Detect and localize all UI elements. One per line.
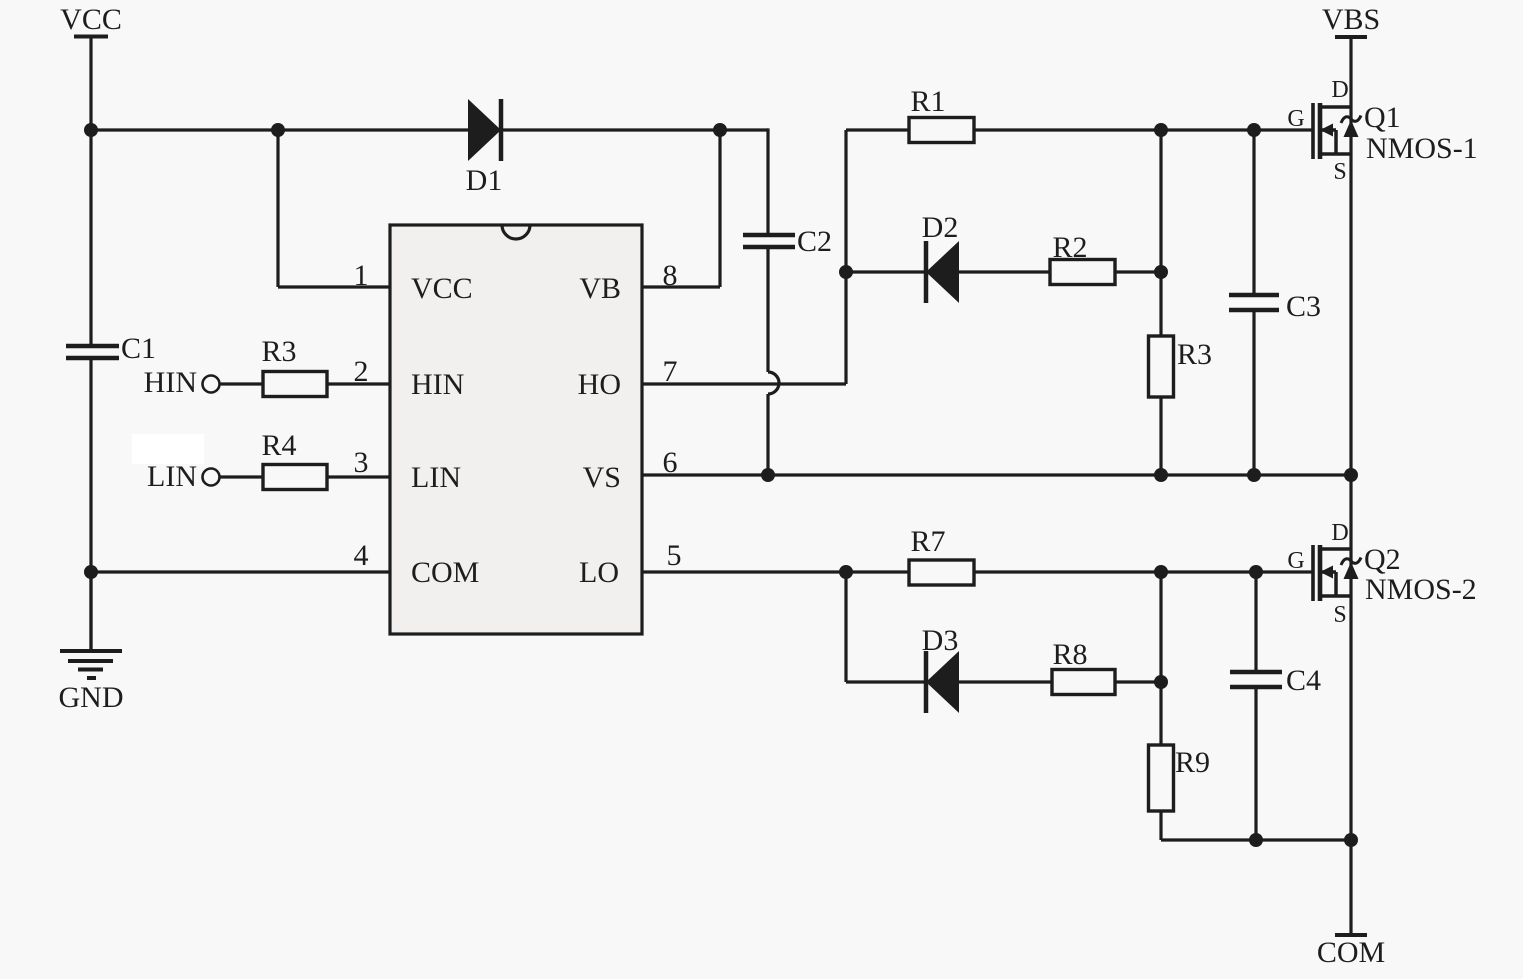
resistor R3 (gate) [1149, 336, 1213, 397]
resistor R2 [1050, 231, 1115, 285]
svg-text:R3: R3 [1177, 338, 1212, 371]
wire pin8 branch [642, 130, 720, 287]
wire HIN to R3 [220, 382, 263, 385]
svg-text:HIN: HIN [411, 368, 464, 401]
svg-text:R1: R1 [910, 85, 945, 118]
svg-text:1: 1 [354, 259, 369, 292]
svg-text:NMOS-2: NMOS-2 [1365, 573, 1477, 606]
node junction bottom rail / Q2 source [1344, 833, 1358, 847]
node junction VS/R3 [1154, 468, 1168, 482]
node junction R2/R3 [1154, 265, 1168, 279]
wire D2 to R2 [959, 270, 1050, 273]
wire D3 branch [846, 572, 926, 682]
node junction pin8 branch [713, 123, 727, 137]
wire Q2 drain-source vertical [1349, 475, 1352, 935]
wire R1 to gate rail [974, 128, 1312, 131]
svg-text:S: S [1333, 602, 1346, 628]
node LIN input [147, 460, 219, 493]
wire HO to R1 [846, 128, 909, 131]
svg-text:C2: C2 [797, 225, 832, 258]
svg-text:LIN: LIN [411, 461, 461, 494]
transistor Q2 name [1364, 543, 1477, 606]
svg-text:HO: HO [578, 368, 621, 401]
svg-text:4: 4 [354, 539, 369, 572]
svg-text:D: D [1331, 520, 1348, 546]
svg-text:C3: C3 [1286, 290, 1321, 323]
svg-text:VBS: VBS [1322, 3, 1380, 36]
node junction VCC/top-rail [84, 123, 98, 137]
svg-text:8: 8 [663, 259, 678, 292]
svg-text:G: G [1287, 548, 1304, 574]
svg-text:VB: VB [579, 272, 621, 305]
svg-text:5: 5 [667, 539, 682, 572]
node junction R8/R9 [1154, 675, 1168, 689]
node junction bottom rail / C4 [1249, 833, 1263, 847]
wire VS row pin6 [642, 473, 1351, 476]
node VBS label [1322, 3, 1380, 37]
resistor R7 [909, 525, 974, 585]
node junction pin1 branch [271, 123, 285, 137]
transistor Q2 [1313, 545, 1361, 601]
wire top rail horizontal [91, 128, 768, 131]
wire VBS to Q1 drain [1349, 37, 1352, 475]
capacitor C4 [1230, 664, 1321, 697]
wire LO pin5 [642, 570, 909, 573]
svg-text:R8: R8 [1052, 638, 1087, 671]
resistor R1 [909, 85, 974, 143]
wire R4 to pin3 [327, 475, 390, 478]
capacitor C1 [66, 332, 156, 365]
svg-text:R3: R3 [261, 335, 296, 368]
resistor R3 (input) [261, 335, 327, 397]
svg-text:2: 2 [354, 355, 369, 388]
wire to D2 [846, 270, 926, 273]
wire C4 branch top [1254, 572, 1257, 672]
svg-text:Q2: Q2 [1364, 543, 1401, 576]
svg-text:GND: GND [59, 681, 124, 714]
svg-text:NMOS-1: NMOS-1 [1366, 132, 1478, 165]
node junction C3 top [1247, 123, 1261, 137]
diode D2 [922, 211, 959, 303]
svg-text:G: G [1287, 106, 1304, 132]
wire LIN to R4 [220, 475, 263, 478]
wire R8 to node [1115, 680, 1161, 683]
node junction VS/C3 [1247, 468, 1261, 482]
svg-text:Q1: Q1 [1364, 101, 1401, 134]
svg-text:VS: VS [583, 461, 621, 494]
transistor Q1 [1313, 103, 1361, 159]
wire HO pin7 [642, 130, 846, 384]
svg-text:D: D [1331, 77, 1348, 103]
svg-text:R7: R7 [910, 525, 945, 558]
wire C3 branch top [1252, 130, 1255, 295]
svg-text:D1: D1 [466, 164, 503, 197]
op-amp U1 IC body [390, 225, 642, 634]
resistor R4 (input) [261, 429, 327, 490]
capacitor C2 [743, 225, 832, 258]
node junction D2 branch [839, 265, 853, 279]
transistor Q1 name [1364, 101, 1478, 165]
svg-text:COM: COM [411, 556, 479, 589]
resistor R9 [1149, 745, 1211, 811]
svg-text:VCC: VCC [60, 3, 122, 36]
node COM terminal [1317, 935, 1385, 969]
resistor R8 [1052, 638, 1115, 695]
wire R9 branch vertical [1161, 572, 1351, 840]
svg-text:S: S [1333, 159, 1346, 185]
wire C2 branch bottom with hop [768, 247, 779, 475]
node junction C4 top [1249, 565, 1263, 579]
wire COM row pin4 [91, 570, 390, 573]
node junction VS/C2 [761, 468, 775, 482]
svg-text:R2: R2 [1052, 231, 1087, 264]
wire D3 to R8 [959, 680, 1052, 683]
node junction VS/Q1 source [1344, 468, 1358, 482]
svg-text:D3: D3 [922, 624, 959, 657]
svg-text:C4: C4 [1286, 664, 1321, 697]
svg-text:R4: R4 [261, 429, 296, 462]
svg-text:3: 3 [354, 446, 369, 479]
white patch [132, 434, 204, 464]
node junction COM row / GND [84, 565, 98, 579]
node HIN input [144, 366, 220, 399]
svg-text:LO: LO [579, 556, 619, 589]
wire R3 to pin2 [327, 382, 390, 385]
wire C2 branch top [766, 128, 769, 235]
svg-text:LIN: LIN [147, 460, 197, 493]
ground GND [59, 572, 124, 714]
node junction R1 rail / R3 branch top [1154, 123, 1168, 137]
wire R3 branch vertical [1159, 130, 1162, 475]
diode D3 [922, 624, 959, 713]
svg-text:D2: D2 [922, 211, 959, 244]
node junction D3 branch [839, 565, 853, 579]
node VCC label [60, 3, 122, 37]
capacitor C3 [1229, 290, 1321, 323]
wire C4 branch bottom [1254, 687, 1257, 840]
svg-text:HIN: HIN [144, 366, 197, 399]
svg-text:C1: C1 [121, 332, 156, 365]
wire C3 branch bottom [1252, 310, 1255, 475]
wire VCC rail vertical [89, 37, 92, 652]
node junction LO rail / R9 branch [1154, 565, 1168, 579]
svg-text:COM: COM [1317, 936, 1385, 969]
wire pin1 branch [278, 130, 390, 287]
wire R2 to node [1115, 270, 1161, 273]
svg-text:R9: R9 [1175, 746, 1210, 779]
wire R7 to gate rail [974, 570, 1312, 573]
svg-text:VCC: VCC [411, 272, 473, 305]
diode D1 [466, 99, 503, 197]
